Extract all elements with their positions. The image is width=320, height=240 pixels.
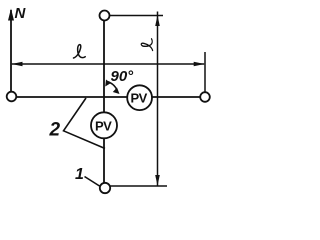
leader line from label 1 to bottom electrode <box>85 177 100 187</box>
angle arc arrow 90deg <box>107 82 118 93</box>
node: left electrode circle <box>7 92 17 102</box>
wire: horizontal conductor left segment <box>17 96 128 98</box>
svg-text:PV: PV <box>131 91 148 106</box>
node: bottom electrode circle <box>100 183 110 193</box>
voltmeter PV1 (in horizontal conductor) <box>127 85 152 110</box>
label l (vertical span) <box>141 39 152 51</box>
svg-text:90°: 90° <box>111 68 135 85</box>
dimension line l vertical <box>157 12 159 186</box>
svg-text:1: 1 <box>75 166 84 183</box>
wire: right extension line <box>204 52 206 92</box>
wire: top extension line <box>110 15 163 17</box>
wire: vertical conductor upper segment <box>103 21 105 113</box>
node: right electrode circle <box>200 92 210 102</box>
voltmeter PV2 (in vertical conductor) <box>91 112 117 138</box>
wire: horizontal conductor right segment <box>152 96 200 98</box>
wire: vertical conductor lower segment <box>103 138 105 183</box>
svg-text:N: N <box>15 5 27 22</box>
label l (horizontal span) <box>74 45 86 58</box>
svg-text:PV: PV <box>95 119 112 134</box>
node: top electrode circle <box>100 11 110 21</box>
leader lines from label 2 to both conductors <box>64 98 106 149</box>
dimension line l horizontal <box>12 63 204 65</box>
wire: bottom extension line <box>111 185 168 187</box>
svg-text:2: 2 <box>49 120 61 141</box>
north arrow N <box>8 9 14 21</box>
wire: left extension line / north axis <box>10 10 12 92</box>
